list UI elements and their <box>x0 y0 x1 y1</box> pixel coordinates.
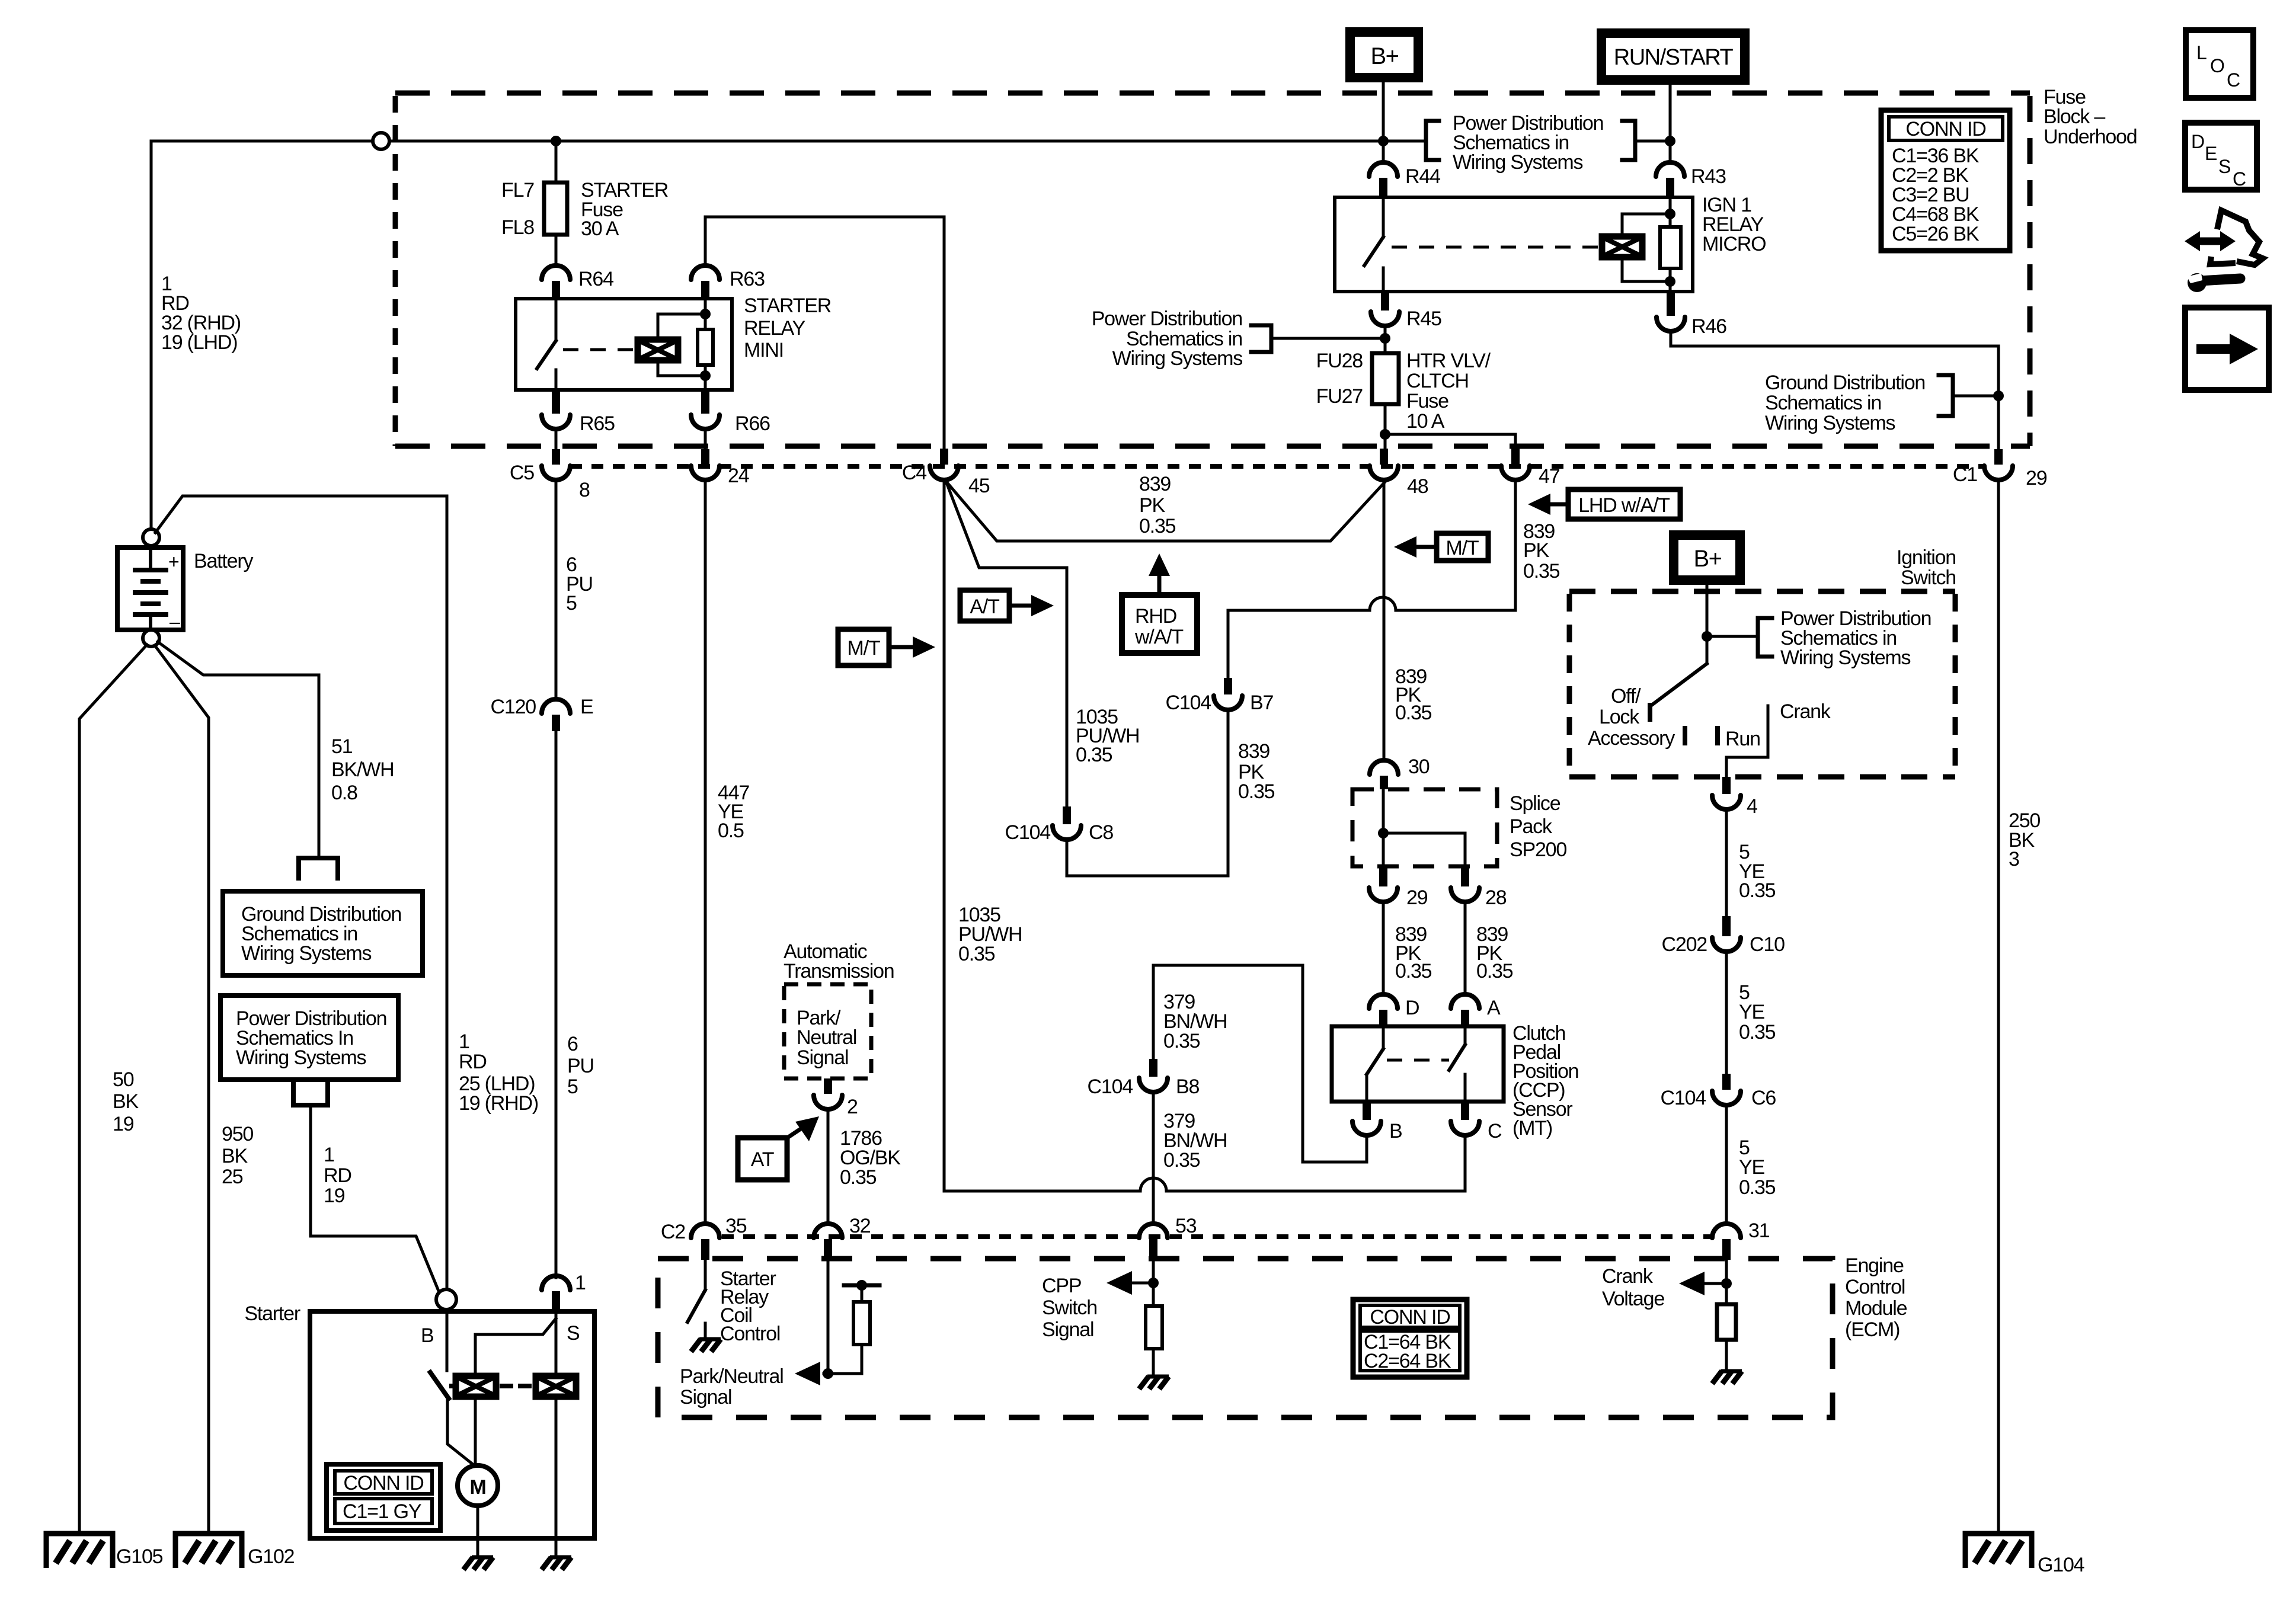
battery internals <box>149 548 152 570</box>
clutch pedal position sensor box <box>1332 1026 1504 1102</box>
svg-text:Splice: Splice <box>1510 792 1560 815</box>
svg-text:1: 1 <box>324 1144 334 1166</box>
svg-text:R46: R46 <box>1691 315 1726 338</box>
B+ box top <box>1350 32 1418 78</box>
starter relay switch <box>555 299 558 341</box>
IGN relay coil <box>1602 236 1642 257</box>
ground G105 <box>46 1534 113 1568</box>
svg-text:FL7: FL7 <box>501 179 534 201</box>
svg-text:Block –: Block – <box>2044 105 2105 128</box>
svg-text:C120: C120 <box>491 696 536 718</box>
connector C104 B7 <box>1214 696 1242 710</box>
svg-text:C104: C104 <box>1661 1087 1706 1109</box>
svg-text:19: 19 <box>324 1185 345 1207</box>
svg-text:3: 3 <box>2009 848 2019 870</box>
wire FU27 down and branch to pin 47 <box>1384 404 1387 449</box>
svg-text:PK: PK <box>1523 539 1549 562</box>
svg-text:B8: B8 <box>1176 1076 1199 1098</box>
connector R45 <box>1381 292 1389 311</box>
svg-text:RD: RD <box>324 1164 351 1187</box>
svg-text:(ECM): (ECM) <box>1845 1318 1900 1341</box>
wire B loop 379 BN/WH to C104 B8 <box>1153 965 1367 1162</box>
node junction dot starter fuse tap <box>551 136 561 146</box>
svg-text:5: 5 <box>566 592 577 614</box>
wire R65 to pin 8 <box>555 429 558 449</box>
starter solenoid coil 2 <box>536 1376 576 1397</box>
starter relay resistor <box>698 329 713 365</box>
svg-text:C202: C202 <box>1662 933 1707 956</box>
wire R63 feed from C4 drop <box>705 217 944 449</box>
node junction dot ignition feed <box>1702 631 1712 642</box>
svg-text:0.35: 0.35 <box>1163 1149 1200 1172</box>
wire pin 31 to crank node <box>1725 1260 1728 1304</box>
svg-text:0.35: 0.35 <box>840 1166 877 1189</box>
automatic transmission dashed box <box>784 984 871 1078</box>
svg-text:Wiring Systems: Wiring Systems <box>1765 412 1895 434</box>
svg-text:C2: C2 <box>661 1221 685 1243</box>
connector pin 47 <box>1511 449 1520 465</box>
CONN ID table starter <box>327 1464 440 1531</box>
wire 28 to A <box>1464 902 1467 994</box>
arrow park/neutral signal <box>824 1372 828 1375</box>
arrow CPP switch signal <box>1124 1282 1153 1285</box>
svg-text:CONN ID: CONN ID <box>1370 1306 1450 1329</box>
wire bus to starter fuse <box>555 141 558 183</box>
svg-text:C: C <box>2233 168 2246 190</box>
starter relay dashed link <box>563 348 638 351</box>
connector pin 53 <box>1139 1224 1168 1238</box>
ignition switch dashed box <box>1569 589 1955 594</box>
connector pin 28 <box>1461 866 1469 886</box>
svg-text:G102: G102 <box>248 1545 295 1568</box>
wire splice pack internals <box>1382 789 1385 866</box>
svg-text:D: D <box>1405 997 1419 1019</box>
svg-text:Schematics in: Schematics in <box>1765 392 1881 414</box>
fuse block underhood dashed box <box>395 91 2030 96</box>
starter relay box <box>516 299 732 390</box>
battery box <box>117 548 183 630</box>
wire pin 48 down to pin 30 <box>1383 480 1386 760</box>
svg-text:B7: B7 <box>1250 692 1273 714</box>
svg-text:Wiring Systems: Wiring Systems <box>1780 646 1911 669</box>
wire pin 32 to park/neutral node <box>827 1260 830 1374</box>
box A/T with arrow <box>960 590 1009 621</box>
svg-text:839: 839 <box>1139 473 1171 495</box>
node circle starter B junction <box>436 1289 456 1310</box>
svg-text:LHD w/A/T: LHD w/A/T <box>1578 494 1670 517</box>
svg-text:Wiring Systems: Wiring Systems <box>1112 347 1243 370</box>
svg-text:45: 45 <box>968 475 990 497</box>
starter relay coil loop <box>658 314 705 340</box>
svg-text:Switch: Switch <box>1042 1297 1097 1319</box>
svg-text:Run: Run <box>1725 728 1760 750</box>
svg-text:8: 8 <box>579 479 590 501</box>
wire B+ to R44 <box>1382 78 1385 162</box>
svg-text:CONN ID: CONN ID <box>1905 118 1985 140</box>
svg-text:Control: Control <box>1845 1276 1905 1298</box>
connector C120 pin E <box>542 699 570 713</box>
svg-text:0.8: 0.8 <box>331 782 357 804</box>
connector R66 <box>701 390 709 414</box>
svg-text:Neutral: Neutral <box>797 1026 856 1049</box>
svg-text:D: D <box>2191 131 2205 152</box>
svg-text:E: E <box>2205 143 2217 164</box>
svg-text:47: 47 <box>1539 465 1560 488</box>
svg-text:19: 19 <box>113 1113 134 1135</box>
connector pin 24 <box>701 449 709 465</box>
svg-text:6: 6 <box>567 1033 578 1055</box>
box arrow right <box>2185 308 2269 390</box>
svg-text:C2=64 BK: C2=64 BK <box>1364 1350 1451 1372</box>
ignition switch position ticks <box>1683 728 1687 743</box>
wire battery B+ feed to starter <box>155 496 447 1289</box>
svg-text:0.35: 0.35 <box>1739 1021 1776 1044</box>
wire pin 4 to C202 <box>1725 809 1728 915</box>
IGN relay dashed link <box>1392 246 1602 249</box>
IGN relay coil loop <box>1622 214 1670 236</box>
connector C104 B8 <box>1149 1059 1157 1077</box>
svg-text:5: 5 <box>567 1076 578 1098</box>
svg-text:R43: R43 <box>1691 165 1726 188</box>
connector half-box below power distribution <box>293 1081 328 1105</box>
wire dotted connector line ECM <box>722 1234 1710 1239</box>
ignition switch wiper <box>1650 664 1707 706</box>
svg-text:Power Distribution: Power Distribution <box>1092 308 1242 330</box>
wire B7 up to pin 47 with hop <box>1228 610 1370 678</box>
wire C6 to ECM pin 31 <box>1725 1105 1728 1222</box>
svg-text:A: A <box>1487 997 1501 1019</box>
CCP left switch <box>1382 1026 1385 1049</box>
svg-text:35: 35 <box>725 1215 747 1237</box>
starter B contact and switch <box>446 1310 449 1371</box>
svg-text:Wiring Systems: Wiring Systems <box>1453 151 1583 174</box>
wire battery feed drop <box>150 141 153 530</box>
svg-text:Off/: Off/ <box>1611 685 1641 708</box>
svg-text:M/T: M/T <box>848 637 880 660</box>
svg-text:CLTCH: CLTCH <box>1406 370 1469 392</box>
wire battery to G105 <box>79 645 147 1531</box>
connector pin 2 <box>824 1078 832 1094</box>
svg-text:0.35: 0.35 <box>1523 560 1560 582</box>
svg-text:28: 28 <box>1485 886 1507 909</box>
svg-text:FU28: FU28 <box>1316 350 1363 372</box>
svg-text:PK: PK <box>1139 494 1165 517</box>
svg-text:Ignition: Ignition <box>1897 546 1956 569</box>
box M/T with left arrow <box>1437 533 1488 561</box>
connector pin 30 <box>1370 760 1398 774</box>
battery bottom circle <box>143 630 159 646</box>
svg-text:STARTER: STARTER <box>744 295 831 317</box>
svg-text:Crank: Crank <box>1780 700 1831 723</box>
connector R44 <box>1369 162 1398 177</box>
svg-text:25: 25 <box>222 1166 243 1188</box>
svg-text:R45: R45 <box>1406 308 1441 330</box>
CONN ID table fuse block <box>1881 110 2010 251</box>
svg-text:MINI: MINI <box>744 339 784 361</box>
svg-text:Battery: Battery <box>194 550 254 572</box>
connector C202 C10 <box>1722 916 1731 936</box>
svg-text:G105: G105 <box>116 1545 163 1568</box>
svg-text:E: E <box>580 696 593 718</box>
svg-text:–: – <box>170 611 180 632</box>
connector pin A <box>1451 994 1479 1009</box>
connector half-box to ground distribution <box>299 858 338 878</box>
ground starter solenoid <box>542 1557 571 1570</box>
box AT with arrow <box>738 1138 787 1180</box>
bracket pointer right (R43) <box>1635 140 1670 143</box>
bracket pointer left (R44) <box>1383 140 1426 143</box>
bracket pointer (ground distribution) <box>1953 395 1998 398</box>
svg-text:O: O <box>2210 55 2225 76</box>
wire top bus from battery drop to B+ tap <box>151 140 1383 143</box>
wire C4 main drop 1035 PU/WH <box>943 480 946 1191</box>
svg-text:C104: C104 <box>1088 1076 1133 1098</box>
svg-text:24: 24 <box>728 465 749 487</box>
svg-text:YE: YE <box>1739 1001 1764 1023</box>
IGN relay resistor <box>1660 227 1681 268</box>
wire C8 loop to B7 <box>1067 710 1228 876</box>
splice pack dashed box <box>1352 789 1497 866</box>
svg-text:BK: BK <box>113 1090 139 1113</box>
connector R65 <box>552 390 560 414</box>
ECM resistor pin 53 <box>1146 1306 1162 1349</box>
svg-text:839: 839 <box>1238 740 1269 763</box>
wire pin 24 to ECM C2 pin 35 <box>704 480 707 1222</box>
node junction dot R43 tap <box>1665 136 1675 146</box>
svg-text:4: 4 <box>1747 795 1757 818</box>
connector C2 pin 35 <box>691 1224 720 1238</box>
wire B8 down to ECM pin 53 <box>1152 1092 1155 1222</box>
node junction dot ground distribution tap <box>1993 391 2004 401</box>
svg-text:Underhood: Underhood <box>2044 126 2137 148</box>
box M/T with arrow <box>838 629 889 665</box>
wire motor to ground <box>477 1506 479 1555</box>
svg-text:C10: C10 <box>1750 933 1785 956</box>
starter solenoid coil 1 <box>456 1376 496 1397</box>
wire C4 fan to C104 C8 <box>946 481 1067 805</box>
wire R45 to fuse FU28 <box>1384 326 1387 353</box>
svg-text:0.35: 0.35 <box>1739 879 1776 902</box>
ECM dashed box <box>658 1259 1833 1417</box>
svg-text:0.35: 0.35 <box>1076 744 1112 766</box>
svg-text:10 A: 10 A <box>1406 410 1445 433</box>
wire pin 53 to CPP node <box>1152 1260 1155 1306</box>
svg-text:C5=26 BK: C5=26 BK <box>1892 223 1980 245</box>
svg-text:Fuse: Fuse <box>1406 390 1448 412</box>
ground ECM CPP <box>1139 1377 1169 1389</box>
connector C5 pin 8 <box>552 449 560 465</box>
wire 29 to D <box>1382 902 1385 994</box>
svg-text:C: C <box>1488 1120 1502 1142</box>
svg-text:Control: Control <box>720 1323 780 1345</box>
svg-text:19 (LHD): 19 (LHD) <box>161 331 237 354</box>
starter box <box>310 1311 594 1538</box>
motor M <box>458 1465 498 1506</box>
svg-text:2: 2 <box>847 1096 858 1118</box>
svg-text:RELAY: RELAY <box>744 317 805 340</box>
node junction dot R45 bracket tap <box>1380 333 1390 344</box>
svg-text:RD: RD <box>459 1051 487 1073</box>
svg-text:51: 51 <box>331 735 353 758</box>
CCP right switch <box>1464 1026 1467 1045</box>
svg-text:Transmission: Transmission <box>784 960 894 982</box>
svg-text:MICRO: MICRO <box>1702 233 1766 255</box>
box LOC <box>2186 30 2253 98</box>
svg-text:19 (RHD): 19 (RHD) <box>459 1092 538 1115</box>
wire 1035 PU/WH horizontal to pin C with hop <box>944 1190 1140 1193</box>
svg-text:950: 950 <box>222 1123 253 1145</box>
svg-text:0.35: 0.35 <box>1395 702 1432 724</box>
starter relay coil <box>638 340 678 360</box>
IGN 1 relay box <box>1335 197 1693 292</box>
box DESC <box>2185 123 2257 190</box>
node junction dot R44 tap <box>1378 136 1389 146</box>
svg-text:30 A: 30 A <box>581 217 619 240</box>
svg-text:L: L <box>2196 42 2207 63</box>
svg-text:A/T: A/T <box>970 596 999 618</box>
svg-text:53: 53 <box>1175 1215 1197 1237</box>
svg-text:(MT): (MT) <box>1512 1117 1552 1140</box>
box RHD w/A/T with up arrow <box>1122 595 1197 653</box>
svg-text:Starter: Starter <box>244 1302 300 1325</box>
connector C104 C6 <box>1722 1074 1731 1090</box>
svg-text:0.35: 0.35 <box>1395 960 1432 982</box>
svg-text:48: 48 <box>1407 475 1428 498</box>
svg-text:31: 31 <box>1748 1219 1770 1242</box>
connector R43 <box>1656 162 1684 177</box>
svg-text:Pack: Pack <box>1510 815 1553 838</box>
svg-text:Wiring Systems: Wiring Systems <box>241 942 372 965</box>
ground starter motor <box>463 1557 493 1570</box>
svg-text:B+: B+ <box>1693 546 1721 572</box>
svg-text:Voltage: Voltage <box>1602 1288 1664 1310</box>
svg-text:Wiring Systems: Wiring Systems <box>236 1046 366 1069</box>
connector C104 C8 <box>1063 806 1071 824</box>
svg-text:CPP: CPP <box>1042 1275 1081 1297</box>
ground G102 <box>175 1534 242 1568</box>
connector pin B <box>1363 1102 1371 1120</box>
starter coil dashed links <box>452 1384 456 1388</box>
svg-text:C1=1 GY: C1=1 GY <box>343 1500 421 1523</box>
connector pin 29 <box>1379 866 1387 886</box>
svg-text:Park/Neutral: Park/Neutral <box>680 1365 784 1388</box>
wire coil1 to motor <box>474 1397 477 1465</box>
icon wrench harness <box>2217 210 2263 265</box>
connector starter pin 1 (S) <box>542 1276 570 1290</box>
wire C4 fan to pin 48 (839 PK) <box>946 481 1386 541</box>
svg-text:CONN ID: CONN ID <box>343 1472 423 1494</box>
svg-text:Switch: Switch <box>1901 566 1956 589</box>
svg-text:Accessory: Accessory <box>1588 727 1675 750</box>
svg-text:SP200: SP200 <box>1510 838 1566 861</box>
svg-text:Module: Module <box>1845 1297 1907 1320</box>
svg-text:Engine: Engine <box>1845 1254 1904 1277</box>
CCP dashed link <box>1387 1059 1449 1062</box>
svg-text:B: B <box>421 1324 433 1347</box>
ECM pull-up resistor pin 32 <box>844 1283 880 1288</box>
wire power distribution to starter B circle <box>311 1105 439 1292</box>
ground distribution box <box>223 891 423 975</box>
svg-text:0.35: 0.35 <box>1476 960 1513 982</box>
wire C1 pin 29 to G104 <box>1997 480 2000 1531</box>
svg-text:C5: C5 <box>510 462 534 484</box>
svg-text:AT: AT <box>751 1148 774 1171</box>
svg-text:C4: C4 <box>902 462 926 484</box>
starter S branch <box>555 1311 558 1374</box>
svg-text:w/A/T: w/A/T <box>1134 626 1183 648</box>
svg-text:C104: C104 <box>1005 821 1051 844</box>
svg-text:R63: R63 <box>730 268 765 290</box>
wire C202 to C104 C6 <box>1725 952 1728 1073</box>
svg-text:BK: BK <box>222 1145 248 1167</box>
svg-text:HTR VLV/: HTR VLV/ <box>1406 350 1491 372</box>
svg-text:0.35: 0.35 <box>1163 1030 1200 1052</box>
svg-text:C: C <box>2227 69 2240 91</box>
svg-text:30: 30 <box>1408 756 1430 778</box>
svg-text:0.35: 0.35 <box>1739 1176 1776 1199</box>
svg-text:C1: C1 <box>1953 463 1977 486</box>
power distribution box <box>220 996 398 1080</box>
svg-text:M: M <box>469 1476 485 1499</box>
svg-text:C8: C8 <box>1089 821 1113 844</box>
RUN/START box <box>1601 33 1745 80</box>
svg-text:C6: C6 <box>1751 1087 1776 1109</box>
svg-text:Ground Distribution: Ground Distribution <box>1765 372 1925 394</box>
wire battery to ground distribution 51 BK/WH <box>158 642 319 857</box>
connector pin 32 <box>814 1224 842 1238</box>
connector R46 <box>1667 292 1675 316</box>
connector pin D <box>1369 994 1398 1009</box>
wire fuse to R64 <box>555 235 558 265</box>
svg-text:R64: R64 <box>578 268 613 290</box>
svg-text:R66: R66 <box>735 412 770 435</box>
battery top circle <box>143 529 159 546</box>
ECM starter relay coil control switch <box>704 1260 707 1290</box>
wire dotted connector line fuse block bottom <box>570 464 1984 469</box>
wire RUN/START to R43 <box>1669 80 1672 162</box>
svg-text:0.35: 0.35 <box>1139 515 1176 537</box>
B+ box ignition <box>1674 535 1740 580</box>
svg-text:S: S <box>2218 156 2231 177</box>
wire R46 to C1 drop <box>1671 331 1998 449</box>
wire crank contact to pin 4 <box>1726 706 1768 777</box>
connector pin C <box>1461 1102 1469 1120</box>
connector pin 4 <box>1722 777 1731 794</box>
svg-text:YE: YE <box>1739 1156 1764 1179</box>
svg-text:C104: C104 <box>1166 692 1211 714</box>
svg-text:1: 1 <box>459 1030 469 1053</box>
IGN relay switch <box>1382 197 1385 237</box>
svg-text:0.35: 0.35 <box>1238 780 1275 803</box>
ground G104 <box>1965 1534 2032 1568</box>
svg-text:PU: PU <box>567 1055 594 1077</box>
connector pin 48 <box>1380 449 1388 465</box>
wire R66 to pin 24 <box>704 429 707 449</box>
fuse FL7/FL8 STARTER Fuse 30 A <box>544 183 567 235</box>
svg-text:B: B <box>1389 1120 1402 1142</box>
ground ECM crank <box>1712 1371 1742 1384</box>
wire pin 8 to C120 <box>555 480 558 699</box>
svg-text:Crank: Crank <box>1602 1265 1654 1288</box>
svg-text:1: 1 <box>575 1272 586 1294</box>
svg-text:Lock: Lock <box>1599 706 1640 728</box>
bracket pointer (power distribution left) <box>1271 337 1385 340</box>
connector R63 <box>691 265 720 280</box>
ECM resistor pin 31 <box>1717 1304 1736 1340</box>
svg-text:29: 29 <box>2026 467 2047 489</box>
svg-text:G104: G104 <box>2038 1554 2084 1576</box>
node junction circle on bus at fuse block edge <box>373 133 389 149</box>
